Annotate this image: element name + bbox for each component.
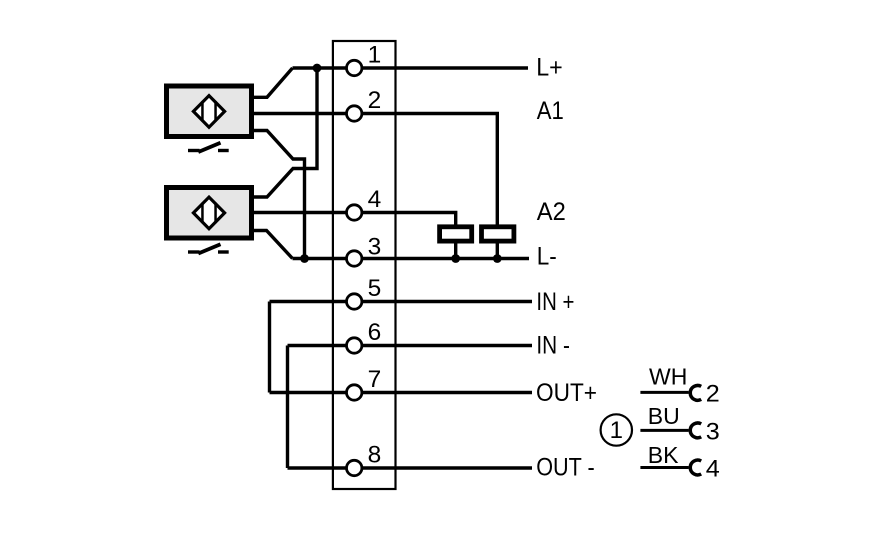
terminal 4 — [347, 205, 362, 220]
svg-text:IN -: IN - — [536, 332, 570, 360]
wire: A1 line from terminal 2 to load R2 — [254, 114, 497, 225]
svg-text:A2: A2 — [537, 198, 566, 226]
svg-text:3: 3 — [706, 418, 720, 445]
svg-text:L+: L+ — [536, 54, 563, 82]
terminal 3 — [347, 251, 362, 266]
wire: OUT+ line (terminal 7) — [270, 391, 533, 394]
svg-text:8: 8 — [368, 442, 382, 469]
terminal 5 — [347, 294, 362, 309]
wire: IN- line (terminal 6) — [288, 344, 533, 347]
sensor S2 diamond symbol — [193, 197, 224, 229]
connector pin 3 socket contact — [690, 423, 701, 438]
sensor S2 body — [167, 188, 252, 239]
sensor S1 diamond inner line left — [201, 101, 204, 121]
sensor S2 diamond inner line left — [201, 203, 204, 223]
svg-text:BK: BK — [648, 442, 679, 468]
terminal 2 — [347, 106, 362, 121]
sensor S1 diamond symbol — [193, 96, 224, 128]
svg-text:2: 2 — [368, 87, 382, 114]
svg-text:1: 1 — [368, 42, 382, 69]
svg-text:L-: L- — [537, 243, 557, 271]
svg-text:4: 4 — [706, 456, 720, 483]
wire: L- line — [293, 257, 530, 260]
wire: jumper terminal 6 to terminal 8 — [286, 346, 289, 469]
connector pin 4 lead — [640, 466, 688, 469]
svg-text:WH: WH — [649, 364, 687, 390]
terminal 7 — [347, 385, 362, 400]
junction on L+ line — [313, 64, 322, 73]
svg-text:6: 6 — [368, 319, 382, 346]
terminal 6 — [347, 338, 362, 353]
connector pin 3 lead — [640, 429, 688, 432]
connector pin 2 socket contact — [690, 385, 701, 400]
junction: L- at sensor drop — [300, 254, 309, 263]
wire: load R1 lower lead — [454, 242, 457, 259]
load R1 — [440, 227, 472, 241]
junction: L- below load R2 — [493, 254, 502, 263]
terminal block — [333, 41, 396, 489]
svg-text:2: 2 — [706, 380, 720, 407]
terminal 1 — [347, 60, 362, 75]
svg-text:OUT+: OUT+ — [536, 379, 597, 407]
svg-text:5: 5 — [368, 275, 382, 302]
wire: sensor S1 bottom pin down to L- line — [254, 131, 305, 259]
svg-text:3: 3 — [368, 234, 382, 261]
svg-text:A1: A1 — [537, 97, 564, 125]
svg-text:BU: BU — [648, 403, 680, 429]
svg-text:7: 7 — [368, 366, 382, 393]
sensor S2 NO contact symbol — [188, 250, 200, 253]
wire: OUT- line (terminal 8) — [288, 466, 533, 469]
connector pin 2 lead — [640, 391, 688, 394]
sensor S1 body — [167, 86, 252, 137]
svg-text:4: 4 — [368, 186, 382, 213]
wire: L+ line from sensor junction to label — [293, 66, 529, 69]
wire: A2 line from terminal 4 to load R1 — [254, 213, 456, 225]
sensor S1 diamond inner line right — [214, 101, 217, 121]
wire: sensor S1 top pin to L+ line — [254, 68, 293, 97]
wire: IN+ line (terminal 5) — [270, 300, 533, 303]
load R2 — [482, 227, 514, 241]
wire: load R2 lower lead — [496, 242, 499, 259]
sensor S1 NO contact symbol — [188, 149, 200, 152]
callout 1 circle — [601, 414, 632, 445]
terminal 8 — [347, 460, 362, 475]
wire: jumper terminal 5 to terminal 7 — [268, 302, 271, 393]
svg-text:IN +: IN + — [536, 288, 574, 316]
wire: sensor S2 bottom pin to L- junction — [254, 231, 293, 259]
sensor S2 diamond inner line right — [214, 203, 217, 223]
connector pin 4 socket contact — [690, 460, 701, 475]
wire: L+ drop from junction down to sensor S2 top pin — [254, 68, 317, 197]
svg-text:OUT -: OUT - — [536, 454, 595, 482]
junction: L- below load R1 — [451, 254, 460, 263]
svg-text:1: 1 — [610, 417, 623, 444]
